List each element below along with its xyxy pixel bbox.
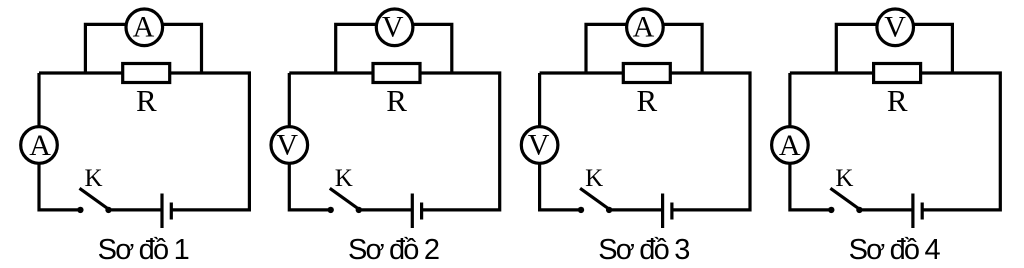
svg-text:K: K xyxy=(585,165,603,192)
svg-text:Sơ đồ 3: Sơ đồ 3 xyxy=(598,234,689,266)
svg-text:Sơ đồ 4: Sơ đồ 4 xyxy=(849,234,941,266)
svg-text:A: A xyxy=(779,129,801,162)
svg-text:V: V xyxy=(528,129,550,162)
svg-text:V: V xyxy=(276,129,298,162)
svg-text:R: R xyxy=(386,83,407,118)
svg-text:A: A xyxy=(633,11,655,44)
svg-text:V: V xyxy=(382,11,404,44)
svg-text:Sơ đồ 2: Sơ đồ 2 xyxy=(348,234,439,266)
svg-text:K: K xyxy=(335,165,353,192)
svg-text:K: K xyxy=(84,165,102,192)
svg-text:R: R xyxy=(887,83,908,118)
svg-text:R: R xyxy=(637,83,658,118)
svg-text:R: R xyxy=(136,83,157,118)
svg-text:K: K xyxy=(835,165,853,192)
svg-text:V: V xyxy=(884,11,906,44)
svg-text:Sơ đồ 1: Sơ đồ 1 xyxy=(98,234,189,266)
svg-text:A: A xyxy=(29,129,51,162)
svg-text:A: A xyxy=(133,11,155,44)
